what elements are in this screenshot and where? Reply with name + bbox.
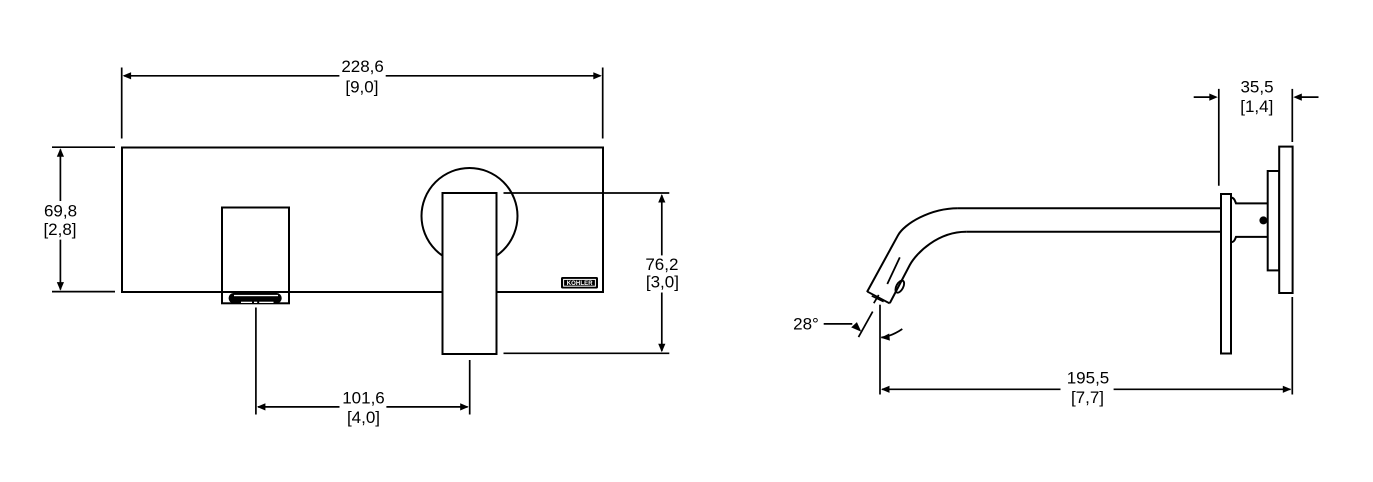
extension line right (from handle center) (469, 360, 471, 415)
dimension 35,5 [1,4] depth (1194, 89, 1319, 186)
arrowhead right (460, 403, 469, 410)
leader line (824, 323, 853, 325)
angle arc (881, 329, 902, 338)
extension line right (602, 68, 604, 139)
arrow tails (1194, 96, 1211, 98)
svg-text:[9,0]: [9,0] (345, 77, 378, 96)
dimension line segments (882, 388, 1061, 390)
aerator highlight line (234, 295, 278, 296)
extension line left (1218, 89, 1220, 186)
arrowhead left (123, 72, 132, 79)
arrowhead down (658, 344, 665, 353)
dimension line segments (59, 150, 61, 202)
spout tip face (867, 292, 889, 304)
arrowhead up (57, 148, 64, 157)
extension line left (879, 305, 881, 395)
dimension line segments (661, 195, 663, 255)
extension line top (52, 146, 115, 148)
spout body rectangle (front view) (222, 208, 289, 304)
dimension 69,8 [2,8] plate height (52, 147, 115, 291)
svg-text:[3,0]: [3,0] (646, 273, 679, 292)
dimension 76,2 [3,0] handle height (504, 193, 670, 353)
extension line bottom (504, 352, 670, 354)
handle lever rectangle (front view) (443, 193, 497, 354)
extension line left (from spout center) (255, 308, 257, 415)
svg-text:35,5: 35,5 (1240, 78, 1273, 97)
dimension 228,6 [9,0] top width (122, 68, 603, 139)
extension line bottom (52, 291, 115, 293)
svg-text:[7,7]: [7,7] (1071, 388, 1104, 407)
arrowhead right (1283, 386, 1292, 393)
escutcheon step (side view) (1268, 171, 1280, 270)
handle lever blade (side view) (1221, 194, 1231, 354)
extension line right (1291, 89, 1293, 142)
leader arrowhead (points south-east) (851, 322, 861, 332)
sensor bump (894, 279, 906, 294)
extension line top (504, 192, 670, 194)
spout tube bottom line (966, 231, 1221, 233)
extension line right (1291, 297, 1293, 395)
extension line left (121, 68, 123, 139)
svg-text:228,6: 228,6 (341, 57, 384, 76)
svg-text:76,2: 76,2 (645, 255, 678, 274)
arrowhead right (593, 72, 602, 79)
spout tube top line (958, 207, 1222, 209)
trim plate outline (front view) (122, 148, 603, 293)
KOHLER logo plate (561, 277, 598, 289)
angled reference line tip segment across face (874, 295, 879, 303)
aerator inset line (side view) (872, 296, 884, 302)
svg-text:69,8: 69,8 (44, 201, 77, 220)
arrowhead left (257, 403, 266, 410)
valve neck top edge (1231, 198, 1268, 204)
arrowhead up (658, 194, 665, 203)
svg-text:195,5: 195,5 (1067, 369, 1110, 388)
aerator (black pill) (229, 293, 282, 303)
arrowhead down (57, 282, 64, 291)
spout detail line (887, 257, 900, 284)
arc arrowhead (881, 334, 890, 341)
svg-text:[4,0]: [4,0] (347, 408, 380, 427)
angled reference line (859, 312, 873, 338)
dimension line segments (124, 75, 339, 77)
arrowhead left (881, 386, 890, 393)
handle escutcheon circle (422, 168, 518, 264)
svg-text:28°: 28° (793, 315, 819, 334)
svg-text:KOHLER: KOHLER (567, 281, 593, 287)
svg-text:101,6: 101,6 (342, 388, 385, 407)
spout inner curve (890, 232, 966, 303)
aerator bottom white dashes (241, 302, 252, 303)
set screw dot (1259, 216, 1267, 224)
dimension 195,5 [7,7] spout reach (880, 297, 1292, 395)
dimension line segments (258, 406, 340, 408)
svg-text:[2,8]: [2,8] (43, 220, 76, 239)
arrowhead pointing left (1293, 94, 1302, 101)
dimension 101,6 [4,0] spout-to-handle (256, 308, 470, 415)
valve neck bottom edge (1231, 237, 1268, 242)
spout outer curve (867, 208, 958, 292)
svg-text:[1,4]: [1,4] (1240, 97, 1273, 116)
arrowhead pointing right (1209, 94, 1218, 101)
trim plate (side view) (1279, 147, 1292, 293)
